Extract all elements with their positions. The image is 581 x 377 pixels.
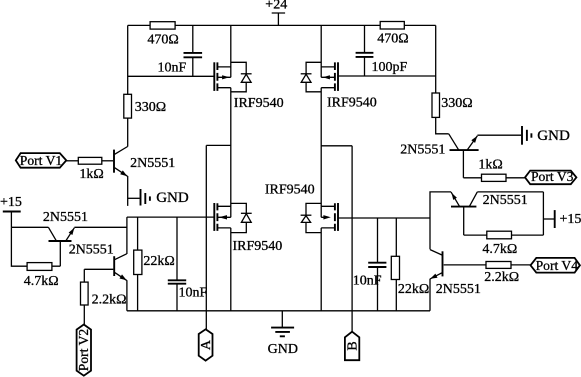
wire: +15 to Q2 collector	[11, 226, 48, 228]
port V2 tag	[76, 325, 91, 376]
wire: node A jog from left half-bridge column	[206, 144, 231, 146]
svg-text:+15: +15	[560, 212, 581, 227]
svg-text:B: B	[346, 341, 361, 350]
svg-text:A: A	[199, 339, 214, 350]
svg-text:2N5551: 2N5551	[483, 193, 528, 208]
power +24 terminal	[265, 0, 287, 25]
svg-text:IRF9540: IRF9540	[327, 96, 377, 111]
resistor 330ohm right	[432, 93, 473, 117]
svg-text:2N5551: 2N5551	[43, 210, 88, 225]
svg-text:2N5551: 2N5551	[69, 242, 114, 257]
wire: left node vertical (gate line to Q3 collector)	[126, 217, 128, 254]
wire: right loop vertical	[542, 192, 544, 235]
svg-text:2N5551: 2N5551	[400, 142, 445, 157]
wire: upper-right gate line	[338, 75, 436, 77]
wire: lower-left gate line	[127, 216, 214, 218]
svg-text:470Ω: 470Ω	[147, 32, 178, 47]
power +15 left terminal	[0, 195, 22, 227]
resistor 470ohm right	[377, 22, 408, 47]
svg-text:22kΩ: 22kΩ	[143, 254, 174, 269]
power +15 right terminal	[543, 210, 581, 228]
mosfet U1 IRF9540 upper-left	[214, 25, 283, 206]
wire: right node corner (gate line up to Q5)	[430, 192, 451, 218]
resistor 4.7kohm right loop	[464, 231, 544, 257]
node A tag	[199, 329, 215, 360]
svg-text:1kΩ: 1kΩ	[478, 157, 502, 172]
wire: 2.2k to port V4	[511, 264, 531, 266]
port V3 tag	[525, 169, 576, 184]
svg-text:330Ω: 330Ω	[135, 100, 166, 115]
wire: node B vertical	[351, 146, 353, 332]
svg-text:IRF9540: IRF9540	[234, 96, 284, 111]
wire: node A vertical	[205, 145, 207, 329]
ground (earth) center	[268, 311, 298, 357]
svg-text:10nF: 10nF	[158, 61, 187, 76]
wire: 2.2k to port V2	[83, 305, 85, 325]
svg-text:2N5551: 2N5551	[130, 156, 175, 171]
wire: V1 to 1k	[66, 160, 78, 162]
svg-text:2N5551: 2N5551	[436, 282, 481, 297]
transistor Q4 2N5551 upper-right rotated	[400, 134, 478, 178]
wire: Q4 base to 1k	[463, 177, 481, 179]
svg-text:GND: GND	[268, 342, 298, 357]
svg-text:100pF: 100pF	[372, 60, 408, 75]
svg-text:+15: +15	[0, 195, 22, 210]
svg-text:4.7kΩ: 4.7kΩ	[482, 242, 517, 257]
node B tag	[345, 332, 361, 361]
svg-text:330Ω: 330Ω	[441, 96, 472, 111]
wire: left branch vertical (rail to 330ohm)	[127, 25, 129, 94]
capacitor 10nF lower-left	[168, 217, 208, 311]
mosfet U2 IRF9540 upper-right	[301, 25, 377, 206]
ground (battery style) right	[477, 126, 570, 145]
transistor Q6 2N5551 lower-right	[430, 250, 481, 311]
wire: bottom rail	[127, 310, 430, 312]
svg-text:470Ω: 470Ω	[377, 32, 408, 47]
svg-text:Port V2: Port V2	[76, 329, 91, 372]
wire: 1k to port V3	[506, 177, 525, 179]
wire: Q2 emitter to node	[74, 226, 127, 228]
wire: right node vertical (gate line to Q6 collector)	[429, 218, 431, 249]
svg-text:GND: GND	[156, 190, 189, 206]
transistor Q5 2N5551 right rotated	[451, 192, 543, 235]
wire: right branch vertical (rail to 330ohm)	[435, 25, 437, 93]
resistor 22kohm right	[391, 218, 429, 311]
capacitor 10nF upper-left	[158, 25, 203, 76]
mosfet U4 IRF9540 lower-right	[265, 183, 338, 311]
transistor Q1 2N5551 upper-left	[114, 147, 175, 206]
svg-text:Port V1: Port V1	[20, 153, 62, 168]
svg-text:IRF9540: IRF9540	[233, 239, 283, 254]
resistor 2.2kohm right	[484, 262, 519, 285]
wire: node B jog from right half-bridge column	[321, 145, 352, 147]
svg-text:4.7kΩ: 4.7kΩ	[24, 274, 59, 289]
svg-text:1kΩ: 1kΩ	[79, 167, 103, 182]
svg-text:Port V3: Port V3	[531, 169, 574, 184]
resistor 330ohm left	[124, 94, 166, 118]
resistor 2.2kohm left	[81, 282, 127, 307]
svg-text:2.2kΩ: 2.2kΩ	[484, 270, 519, 285]
wire: lower-right gate line	[338, 217, 430, 219]
wire: Q6 base lead	[444, 264, 486, 266]
svg-text:10nF: 10nF	[353, 273, 382, 288]
capacitor 100pF	[356, 25, 408, 76]
svg-text:10nF: 10nF	[179, 285, 208, 300]
resistor 4.7kohm left loop	[11, 227, 60, 288]
wire: 1k to Q1 base	[102, 160, 113, 162]
ground (battery style) left	[128, 189, 189, 206]
wire: +24 top rail	[128, 24, 436, 26]
port V4 tag	[531, 258, 580, 273]
svg-text:IRF9540: IRF9540	[265, 183, 315, 198]
capacitor 10nF lower-right	[353, 218, 387, 311]
resistor 470ohm left	[147, 22, 178, 48]
mosfet U3 IRF9540 lower-left	[214, 203, 282, 311]
svg-text:+24: +24	[265, 0, 287, 12]
wire: 330ohm right to Q4 collector corner	[436, 117, 449, 133]
transistor Q2 2N5551 left rotated	[43, 210, 88, 266]
wire: Q3 base lead	[84, 269, 113, 282]
transistor Q3 2N5551 lower-left	[69, 242, 127, 310]
resistor 22kohm left	[134, 217, 175, 311]
resistor 1kohm left	[78, 157, 104, 181]
port V1 tag	[16, 153, 67, 168]
resistor 1kohm right	[478, 157, 506, 181]
svg-text:Port V4: Port V4	[536, 258, 579, 273]
wire: upper-left gate line	[128, 75, 214, 77]
svg-text:GND: GND	[537, 128, 570, 144]
svg-text:22kΩ: 22kΩ	[398, 282, 429, 297]
wire: 330ohm to Q1 collector	[127, 118, 129, 147]
svg-text:2.2kΩ: 2.2kΩ	[92, 292, 127, 307]
